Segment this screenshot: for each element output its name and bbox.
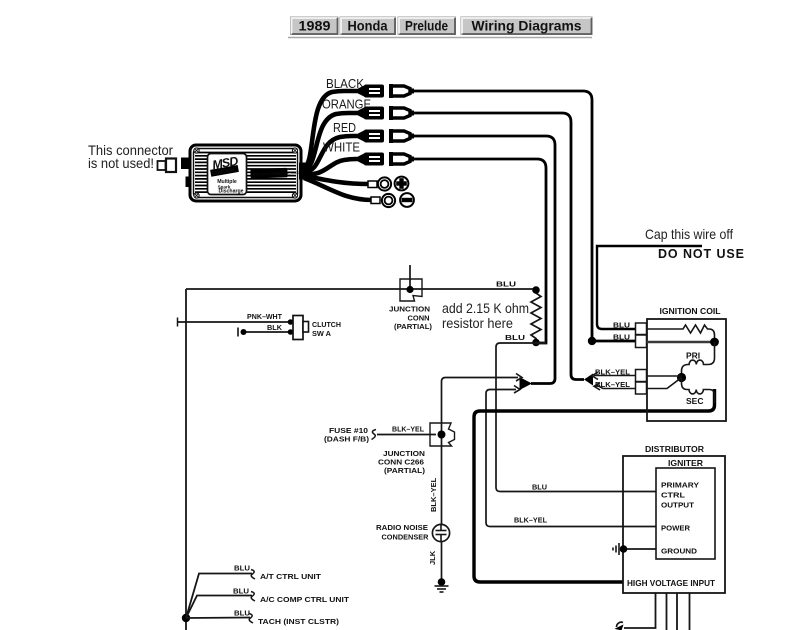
svg-text:BLU: BLU (234, 609, 250, 618)
svg-text:BLK: BLK (267, 323, 283, 332)
wire condenser to ground (441, 542, 443, 583)
svg-text:1989: 1989 (299, 18, 331, 34)
ignition coil box (647, 319, 726, 421)
coil internal blk-yel wires (647, 375, 682, 377)
wire white run (414, 159, 546, 343)
svg-text:TACH (INST CLSTR): TACH (INST CLSTR) (258, 617, 340, 626)
header separator line (288, 37, 592, 39)
svg-text:is not used!: is not used! (88, 155, 154, 171)
capped wire (do not use) (597, 246, 702, 329)
svg-text:JLK: JLK (428, 550, 437, 565)
node junction conn (406, 286, 413, 293)
primary winding (682, 342, 715, 377)
wire BLU from resistor to distributor primary (496, 343, 656, 492)
igniter box (656, 468, 715, 559)
negative symbol (400, 193, 414, 207)
clutch switch SW A (288, 316, 309, 340)
svg-text:IGNITER: IGNITER (668, 459, 703, 468)
male spade terminals (358, 85, 384, 166)
node coil common (677, 373, 686, 382)
junction conn C266 box (430, 423, 455, 446)
wire PNK-WHT (177, 321, 291, 323)
button Wiring Diagrams (461, 17, 592, 35)
lower left nub (186, 177, 192, 188)
arrow junction red wire (514, 374, 532, 394)
svg-text:CLUTCH: CLUTCH (312, 320, 341, 329)
wire orange curve (304, 113, 359, 170)
wire to tach (186, 617, 250, 620)
svg-text:PNK–WHT: PNK–WHT (247, 312, 282, 321)
unused connector icon (158, 159, 177, 173)
node coil positive (710, 338, 719, 347)
ground symbol distributor (613, 543, 619, 555)
arrow junction orange wire (584, 372, 600, 390)
wire to positive ring (305, 176, 369, 184)
wire to negative ring (304, 178, 372, 200)
svg-text:OUTPUT: OUTPUT (661, 501, 694, 510)
coil connector blocks (636, 323, 647, 394)
wire BLK terminal (241, 329, 247, 335)
svg-text:BLU: BLU (613, 333, 630, 342)
resistor 2.15k zigzag (531, 291, 541, 341)
secondary winding (682, 378, 715, 404)
svg-text:BLK–YEL: BLK–YEL (392, 425, 424, 434)
msd label panel (208, 154, 247, 195)
svg-text:Honda: Honda (348, 18, 388, 34)
radio noise condenser C1 (432, 524, 449, 541)
wire white curve (304, 159, 359, 174)
wire red curve (304, 136, 359, 172)
svg-text:CONDENSER: CONDENSER (382, 533, 430, 542)
node condenser ground (438, 578, 446, 586)
wire orange run (414, 113, 584, 380)
wire black run to coil (414, 91, 636, 341)
svg-text:HIGH VOLTAGE INPUT: HIGH VOLTAGE INPUT (627, 579, 715, 588)
node resistor top (532, 286, 540, 294)
svg-text:BLU: BLU (496, 280, 516, 289)
svg-text:A/T CTRL UNIT: A/T CTRL UNIT (260, 572, 321, 581)
fuse 10 wire BLK-YEL (377, 434, 436, 436)
fins (195, 153, 296, 193)
svg-text:POWER: POWER (661, 524, 691, 533)
junction conn partial box (400, 279, 422, 301)
svg-text:(DASH F/B): (DASH F/B) (324, 435, 370, 444)
distributor box (623, 456, 725, 593)
junction conn stub (409, 265, 411, 289)
svg-text:(PARTIAL): (PARTIAL) (394, 322, 433, 331)
MSD ignition box U1 (181, 145, 309, 201)
svg-text:Discharge: Discharge (218, 189, 243, 195)
wire coil blk-yel 2 to arrow (596, 385, 636, 389)
node tach branch (182, 614, 190, 622)
node resistor bottom (532, 339, 540, 347)
svg-text:BLU: BLU (233, 587, 249, 596)
svg-text:DO NOT USE: DO NOT USE (658, 247, 744, 261)
svg-text:IGNITION COIL: IGNITION COIL (659, 306, 720, 316)
wire coil blk-yel 1 to arrow (594, 375, 636, 377)
svg-text:PRIMARY: PRIMARY (661, 481, 699, 490)
svg-text:resistor here: resistor here (442, 315, 513, 331)
node ground distributor (620, 545, 628, 553)
svg-text:WHITE: WHITE (323, 140, 360, 155)
wire to A/T ctrl unit (186, 574, 252, 619)
female spade terminals (391, 84, 414, 166)
wire end tick (177, 318, 179, 327)
spark plug wire 4 (689, 593, 691, 630)
svg-text:add 2.15 K ohm: add 2.15 K ohm (442, 300, 529, 316)
wire white-resistor link (536, 342, 546, 344)
wire harness curves from MSD (304, 91, 372, 200)
node black/coil junction (588, 337, 596, 345)
svg-text:BLU: BLU (234, 564, 250, 573)
button Prelude (398, 17, 456, 35)
wire to A/C comp ctrl unit (186, 596, 252, 619)
node C266 (438, 431, 446, 439)
svg-text:DISTRIBUTOR: DISTRIBUTOR (645, 444, 705, 454)
high voltage wire from coil SEC to distributor (474, 389, 715, 582)
corner screws (194, 148, 298, 198)
ring terminal negative (371, 194, 395, 207)
svg-text:(PARTIAL): (PARTIAL) (384, 466, 426, 475)
wire fuse feed upper (442, 378, 519, 525)
spark plug wire 2 (666, 593, 668, 630)
svg-text:BLU: BLU (613, 321, 630, 330)
wire left vertical main (185, 289, 187, 630)
svg-text:RED: RED (333, 120, 356, 135)
svg-text:CTRL: CTRL (661, 491, 685, 500)
positive symbol (395, 177, 409, 191)
ring terminal positive (368, 177, 391, 190)
svg-text:RADIO NOISE: RADIO NOISE (376, 523, 428, 532)
fuse hook (372, 430, 377, 440)
svg-text:SEC: SEC (686, 396, 703, 406)
header buttons (288, 17, 592, 38)
wire BLU tach line (186, 288, 536, 290)
svg-text:Wiring Diagrams: Wiring Diagrams (472, 18, 582, 34)
right wire exit nub (299, 163, 309, 180)
ground symbol condenser (435, 586, 449, 592)
svg-text:BLK–YEL: BLK–YEL (429, 477, 438, 512)
wire power feed lower (486, 390, 656, 527)
svg-text:Prelude: Prelude (405, 18, 448, 34)
svg-text:Cap this wire off: Cap this wire off (645, 226, 733, 242)
left connector nub (181, 158, 191, 170)
spark plug wire 1 with rotor arrow (624, 593, 656, 628)
svg-text:BLK–YEL: BLK–YEL (514, 516, 547, 525)
wire red run (414, 136, 555, 384)
ground wire distributor (623, 548, 656, 550)
coil internal blu2 wire (647, 341, 715, 343)
button Honda (340, 17, 396, 35)
wire BLK (243, 331, 291, 333)
svg-text:PRI: PRI (686, 351, 700, 361)
button 1989 (291, 17, 339, 35)
svg-text:JUNCTION: JUNCTION (389, 305, 430, 314)
svg-text:BLU: BLU (505, 333, 525, 342)
svg-text:GROUND: GROUND (661, 547, 698, 556)
svg-text:SW A: SW A (312, 329, 332, 338)
svg-text:A/C COMP CTRL UNIT: A/C COMP CTRL UNIT (260, 595, 349, 604)
coil internal resistor (647, 325, 715, 342)
spark plug wire 3 (676, 593, 678, 630)
model strip (250, 167, 303, 178)
wire black curve (304, 91, 359, 168)
svg-text:BLU: BLU (532, 483, 547, 492)
